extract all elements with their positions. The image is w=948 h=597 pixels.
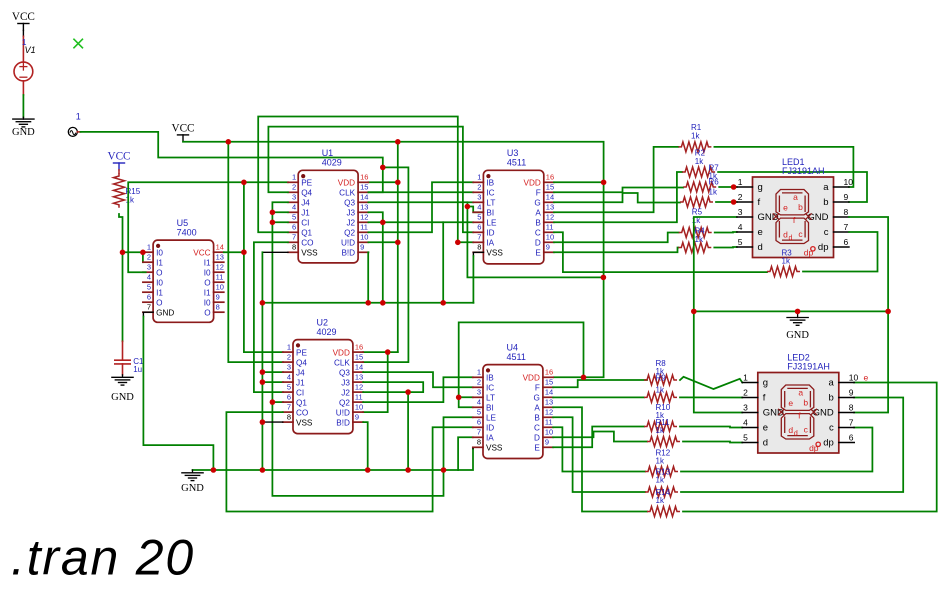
svg-text:b: b: [803, 398, 808, 408]
wire J2 net to gnd rail: [407, 392, 409, 470]
svg-text:4511: 4511: [507, 158, 526, 168]
svg-text:LT: LT: [486, 199, 495, 208]
svg-text:ID: ID: [486, 424, 494, 433]
svg-text:10: 10: [355, 403, 363, 412]
junction at 408.1,392.1: [405, 389, 411, 395]
svg-text:15: 15: [360, 183, 368, 192]
junction at 458.7,397.3: [456, 395, 462, 401]
junction at 797.6,311.4: [795, 309, 801, 315]
svg-text:I0: I0: [156, 278, 163, 287]
wire U5 pin7 GND down: [143, 311, 153, 313]
svg-text:7: 7: [147, 303, 151, 312]
svg-text:dp: dp: [804, 248, 814, 258]
svg-text:2: 2: [738, 192, 743, 202]
svg-text:8: 8: [216, 303, 220, 312]
wire U1 VSS column to gnd rail: [261, 252, 263, 470]
svg-text:J1: J1: [296, 378, 305, 387]
wire U2 J1 branch: [262, 381, 283, 383]
svg-text:7: 7: [849, 418, 854, 428]
junction at 397.8,182.3: [395, 180, 401, 186]
svg-text:1: 1: [738, 177, 743, 187]
svg-text:R6: R6: [709, 178, 720, 187]
svg-text:VDD: VDD: [524, 179, 541, 188]
svg-text:d: d: [794, 431, 798, 438]
svg-text:11: 11: [546, 223, 554, 232]
wire PE net down to U2 PE: [244, 182, 283, 352]
svg-text:Q1: Q1: [301, 229, 312, 238]
resistor R6: [680, 197, 713, 207]
wire U2 J3/J2 jog: [363, 382, 423, 392]
svg-text:4: 4: [292, 203, 296, 212]
svg-text:CI: CI: [296, 388, 304, 397]
svg-text:6: 6: [477, 223, 481, 232]
wire VCC rail drop to U2 pin2: [228, 142, 283, 362]
svg-text:6: 6: [849, 433, 854, 443]
svg-text:CLK: CLK: [339, 189, 355, 198]
svg-text:4029: 4029: [317, 327, 337, 337]
svg-text:12: 12: [216, 263, 224, 272]
wire ground rail: [193, 449, 474, 471]
svg-text:GND: GND: [181, 483, 204, 494]
wire R6 to LED1 pin2: [716, 201, 737, 203]
wire U3 VDD pin16: [554, 181, 604, 183]
capacitor C1: [122, 341, 124, 360]
svg-text:5: 5: [477, 408, 481, 417]
svg-text:6: 6: [287, 393, 291, 402]
wire U4 C to R13: [553, 427, 645, 471]
svg-text:10: 10: [216, 283, 224, 292]
svg-text:g: g: [763, 378, 768, 389]
svg-text:7: 7: [477, 233, 481, 242]
wire R11 to LED2 pin4: [680, 427, 742, 428]
svg-text:b: b: [798, 202, 803, 212]
resistor R14: [645, 487, 678, 497]
junction at 272.4,212.3: [270, 210, 276, 216]
svg-text:CO: CO: [301, 239, 313, 248]
svg-text:5: 5: [743, 433, 748, 443]
resistor R5: [678, 243, 711, 253]
wire R1 to LED1 a: [714, 147, 853, 187]
junction at 262.4,422.1: [260, 419, 266, 425]
junction at 888.1,311.4: [885, 309, 891, 315]
wire U4 B to R14: [553, 417, 645, 492]
svg-text:VCC: VCC: [107, 150, 130, 162]
svg-text:G: G: [534, 394, 540, 403]
wire R8 to LED2 pin1 (diagonal): [680, 377, 742, 389]
svg-text:7: 7: [287, 403, 291, 412]
svg-text:GND: GND: [156, 308, 174, 317]
wire BI jog: [467, 207, 483, 213]
svg-text:D: D: [535, 239, 541, 248]
svg-text:13: 13: [355, 373, 363, 382]
wire U3 G to R6 (step): [554, 193, 680, 203]
junction at 272.4,222.3: [270, 220, 276, 226]
svg-text:IC: IC: [486, 384, 494, 393]
wire clock from source: [81, 132, 383, 168]
svg-text:12: 12: [355, 383, 363, 392]
svg-text:13: 13: [216, 253, 224, 262]
ground (C1): [122, 375, 124, 378]
svg-text:c: c: [824, 227, 829, 238]
svg-text:D: D: [534, 434, 540, 443]
junction at 733.6,187.0: [731, 184, 737, 190]
junction at 122.5,252.3: [120, 250, 126, 256]
svg-text:VSS: VSS: [486, 444, 503, 453]
svg-text:FJ3191AH: FJ3191AH: [787, 362, 830, 372]
junction at 408.1,470.0: [405, 467, 411, 473]
wire LE row down to gnd bus: [442, 222, 444, 302]
wire U1 CLK row to U3 IC: [368, 191, 473, 193]
svg-text:13: 13: [545, 398, 553, 407]
svg-text:b: b: [829, 393, 834, 404]
svg-text:1: 1: [477, 368, 481, 377]
svg-text:3: 3: [743, 403, 748, 413]
svg-text:C: C: [534, 424, 540, 433]
svg-text:G: G: [534, 199, 540, 208]
svg-text:2: 2: [743, 388, 748, 398]
svg-text:I0: I0: [204, 268, 211, 277]
resistor R8: [644, 375, 677, 385]
wire U4 A to LED2 a resistor: [553, 407, 647, 511]
svg-text:11: 11: [360, 223, 368, 232]
svg-text:VDD: VDD: [338, 179, 355, 188]
wire U4 E to R11: [553, 427, 644, 448]
svg-text:J2: J2: [346, 219, 355, 228]
wire R4 to LED1 pin4: [715, 231, 737, 234]
svg-text:5: 5: [287, 383, 291, 392]
svg-text:1: 1: [743, 373, 748, 383]
svg-text:LT: LT: [486, 394, 495, 403]
wire J1 branch: [272, 211, 288, 213]
wire U3 VSS down: [473, 252, 483, 256]
svg-text:4: 4: [477, 398, 481, 407]
svg-text:6: 6: [147, 293, 151, 302]
svg-text:8: 8: [287, 413, 291, 422]
svg-text:1k: 1k: [656, 476, 665, 485]
wire CI branch: [272, 221, 288, 223]
svg-text:J2: J2: [341, 388, 350, 397]
wire U2 CO to U4 ID: [226, 412, 472, 511]
svg-text:2: 2: [147, 253, 151, 262]
wire U1 Q3 to U3 LT: [368, 202, 467, 206]
svg-text:6: 6: [844, 237, 849, 247]
ground (LED rail): [797, 311, 799, 317]
svg-text:1k: 1k: [656, 496, 665, 505]
svg-text:R9: R9: [656, 373, 667, 382]
resistor R2: [682, 167, 715, 177]
svg-text:e: e: [788, 398, 793, 408]
wire U1 VDD pin16: [368, 181, 397, 183]
svg-text:dp: dp: [818, 242, 829, 253]
svg-text:Q2: Q2: [344, 229, 355, 238]
svg-text:GND: GND: [111, 392, 134, 403]
svg-text:12: 12: [546, 213, 554, 222]
svg-text:Q4: Q4: [301, 189, 312, 198]
svg-text:U5: U5: [177, 218, 189, 228]
junction at 272.4,402.1: [270, 399, 276, 405]
svg-text:10: 10: [546, 233, 554, 242]
svg-text:c: c: [804, 425, 809, 435]
svg-text:I0: I0: [156, 248, 163, 257]
junction at 382.8,222.3: [380, 220, 386, 226]
wire VCC rail: [183, 142, 604, 183]
svg-text:1k: 1k: [695, 235, 704, 244]
svg-text:FJ3191AH: FJ3191AH: [782, 166, 825, 176]
wire R5 to LED1 pin5: [714, 246, 737, 249]
svg-text:B: B: [535, 219, 541, 228]
svg-text:8: 8: [477, 243, 481, 252]
svg-text:VSS: VSS: [296, 418, 313, 427]
wire U3 A to R1: [554, 147, 678, 212]
svg-text:U1: U1: [322, 148, 334, 158]
resistor R3: [767, 267, 800, 277]
svg-text:J3: J3: [346, 209, 355, 218]
svg-text:B: B: [534, 414, 540, 423]
svg-text:E: E: [535, 249, 541, 258]
wire U1 Q4 loop to U3 ID: [268, 127, 473, 233]
svg-text:9: 9: [545, 438, 549, 447]
junction at 443.5,470.0: [441, 467, 447, 473]
svg-text:6: 6: [292, 223, 296, 232]
svg-text:I1: I1: [204, 258, 211, 267]
svg-text:13: 13: [360, 203, 368, 212]
svg-text:12: 12: [545, 408, 553, 417]
svg-text:a: a: [793, 192, 798, 202]
svg-text:B!D: B!D: [336, 418, 350, 427]
svg-text:VCC: VCC: [193, 248, 210, 257]
wire R15 bottom to node: [119, 214, 123, 252]
svg-text:1u: 1u: [133, 365, 142, 374]
wire LT/BI net down to VDD: [467, 207, 603, 278]
svg-text:10: 10: [360, 233, 368, 242]
svg-text:16: 16: [355, 343, 363, 352]
wire U3 B to R2: [554, 172, 682, 222]
svg-text:5: 5: [292, 213, 296, 222]
svg-text:1k: 1k: [126, 195, 135, 204]
wire VDD column U3 to U4: [554, 182, 604, 377]
svg-text:CLK: CLK: [334, 358, 350, 367]
svg-text:IA: IA: [486, 239, 494, 248]
svg-text:11: 11: [545, 418, 553, 427]
wire node down to C1: [122, 252, 124, 341]
svg-text:8: 8: [292, 243, 296, 252]
svg-text:O: O: [156, 298, 162, 307]
wire R13 to LED2 pin7: [681, 428, 872, 472]
svg-text:PE: PE: [301, 179, 312, 188]
junction at 382.8,302.8: [380, 300, 386, 306]
svg-text:9: 9: [849, 388, 854, 398]
svg-text:2: 2: [287, 353, 291, 362]
svg-text:O: O: [204, 278, 210, 287]
svg-text:IB: IB: [486, 374, 494, 383]
signal source 1 (clock): [68, 127, 77, 136]
svg-text:GND: GND: [12, 127, 35, 138]
svg-text:IB: IB: [486, 179, 494, 188]
svg-text:9: 9: [216, 293, 220, 302]
wire U1 Q1 loop to U3 IA: [258, 117, 473, 243]
resistor R15: [118, 170, 120, 173]
IC U5 7400: [153, 240, 214, 322]
svg-text:CO: CO: [296, 408, 308, 417]
svg-text:O: O: [204, 308, 210, 317]
svg-text:10: 10: [844, 177, 854, 187]
wire J2 net down to gnd bus: [382, 222, 384, 302]
IC U4 4511: [483, 365, 543, 459]
svg-text:F: F: [536, 189, 541, 198]
svg-text:J1: J1: [301, 209, 310, 218]
svg-text:VSS: VSS: [486, 249, 503, 258]
svg-text:2: 2: [292, 183, 296, 192]
wire U2 B!D to gnd rail: [363, 422, 368, 470]
resistor R13: [645, 467, 678, 477]
junction at 228.3,141.8: [226, 139, 232, 145]
svg-text:VSS: VSS: [301, 249, 318, 258]
svg-text:LE: LE: [486, 219, 497, 228]
wire U3 D to R4: [554, 233, 679, 243]
junction at 382.8,167.4: [380, 165, 386, 171]
svg-text:V1: V1: [25, 45, 36, 55]
svg-text:5: 5: [738, 237, 743, 247]
svg-text:VCC: VCC: [12, 11, 35, 23]
svg-text:d: d: [789, 235, 793, 242]
svg-text:9: 9: [360, 243, 364, 252]
svg-text:1k: 1k: [656, 386, 665, 395]
wire U1 J4/J1/CI gnd chain: [272, 202, 443, 496]
wire LED gnd rail: [694, 310, 888, 312]
wire U4 IA to gnd rail: [458, 437, 473, 470]
svg-text:C: C: [535, 229, 541, 238]
resistor segment a (LED2): [647, 507, 680, 517]
svg-text:7400: 7400: [177, 227, 197, 237]
svg-text:3: 3: [292, 193, 296, 202]
svg-text:5: 5: [147, 283, 151, 292]
IC U3 4511: [483, 170, 543, 264]
svg-text:13: 13: [546, 203, 554, 212]
svg-text:Q3: Q3: [344, 199, 355, 208]
svg-text:3: 3: [147, 263, 151, 272]
wire clock to U1 CLK: [368, 167, 382, 192]
svg-text:Q3: Q3: [339, 368, 350, 377]
svg-text:6: 6: [477, 418, 481, 427]
svg-text:U!D: U!D: [336, 408, 350, 417]
svg-text:e: e: [864, 373, 869, 383]
svg-text:d: d: [788, 425, 793, 435]
wire U4 LT branch: [459, 396, 473, 398]
wire VDD drop to U1/U2 pin16: [397, 142, 399, 183]
wire U2 J2 row: [363, 391, 408, 393]
svg-text:16: 16: [545, 368, 553, 377]
svg-text:8: 8: [477, 438, 481, 447]
svg-text:4: 4: [287, 373, 291, 382]
wire rail down to LED2 pin8: [854, 311, 888, 412]
svg-text:g: g: [758, 182, 763, 193]
svg-text:1: 1: [147, 243, 151, 252]
junction at 367.7,470.0: [365, 467, 371, 473]
junction at 397.8,242.3: [395, 240, 401, 246]
IC U2 4029: [293, 340, 353, 434]
svg-text:9: 9: [355, 413, 359, 422]
svg-text:J4: J4: [296, 368, 305, 377]
wire V1 bottom lead: [22, 81, 24, 95]
wire R9 to LED2 pin2: [680, 396, 742, 398]
wire U2 pin16 to pin10 U!D: [363, 352, 388, 412]
wire U4 F to R8: [553, 380, 647, 387]
junction at 583.5,377.3: [581, 375, 587, 381]
svg-text:J4: J4: [301, 199, 310, 208]
wire U5 pin3 output to PE net: [128, 182, 288, 272]
svg-text:I0: I0: [204, 298, 211, 307]
svg-text:14: 14: [360, 193, 368, 202]
wire R2 to LED1 b: [718, 172, 867, 202]
svg-text:15: 15: [546, 183, 554, 192]
junction at 397.8,141.8: [395, 139, 401, 145]
svg-text:BI: BI: [486, 209, 494, 218]
svg-text:11: 11: [355, 393, 363, 402]
wire to LED2 pin10: [683, 383, 937, 512]
svg-text:3: 3: [287, 363, 291, 372]
svg-text:1k: 1k: [691, 132, 700, 141]
svg-text:2: 2: [477, 183, 481, 192]
svg-text:14: 14: [355, 363, 363, 372]
svg-text:9: 9: [844, 192, 849, 202]
wire U1 J3/J2 jog: [368, 212, 382, 222]
svg-text:O: O: [156, 268, 162, 277]
svg-text:1k: 1k: [782, 257, 791, 266]
voltage source V1: [14, 62, 33, 81]
svg-text:1: 1: [76, 112, 81, 122]
svg-text:GND: GND: [786, 330, 809, 341]
svg-text:U4: U4: [507, 342, 519, 352]
svg-text:dp: dp: [823, 438, 834, 449]
svg-text:I1: I1: [204, 288, 211, 297]
svg-text:U2: U2: [317, 317, 329, 327]
svg-text:A: A: [535, 209, 541, 218]
svg-text:f: f: [758, 197, 761, 208]
wire U2 J4 branch: [262, 371, 283, 373]
wire R14 to LED2 pin9: [681, 398, 903, 493]
svg-text:VDD: VDD: [523, 374, 540, 383]
svg-text:14: 14: [216, 243, 224, 252]
svg-text:7: 7: [477, 428, 481, 437]
wire R12 to LED2 pin5: [683, 442, 742, 443]
svg-text:5: 5: [477, 213, 481, 222]
svg-text:dp: dp: [809, 443, 819, 453]
junction at 443.2,302.8: [440, 300, 446, 306]
junction at 262.4,470.0: [260, 467, 266, 473]
svg-text:ID: ID: [486, 229, 494, 238]
svg-text:3: 3: [477, 388, 481, 397]
svg-text:U!D: U!D: [341, 239, 355, 248]
svg-text:A: A: [534, 404, 540, 413]
svg-text:f: f: [763, 393, 766, 404]
wire U2 Q3 to U4 IC: [363, 372, 473, 387]
wire U2 pin6 branch: [272, 401, 283, 403]
junction at 733.6,202.0: [731, 199, 737, 205]
junction at 243.9,252.2: [241, 249, 247, 255]
junction at 262.4,372.1: [260, 369, 266, 375]
wire R7 to LED1 pin1: [719, 186, 737, 188]
svg-text:1k: 1k: [695, 157, 704, 166]
junction at 243.9,182.3: [241, 180, 247, 186]
svg-text:1k: 1k: [709, 187, 718, 196]
svg-text:8: 8: [844, 207, 849, 217]
svg-text:4511: 4511: [507, 352, 526, 362]
ground (logic rail): [192, 470, 194, 473]
svg-text:E: E: [534, 444, 540, 453]
junction at 603.6,182.3: [601, 180, 607, 186]
svg-text:10: 10: [849, 373, 859, 383]
svg-text:7: 7: [844, 222, 849, 232]
